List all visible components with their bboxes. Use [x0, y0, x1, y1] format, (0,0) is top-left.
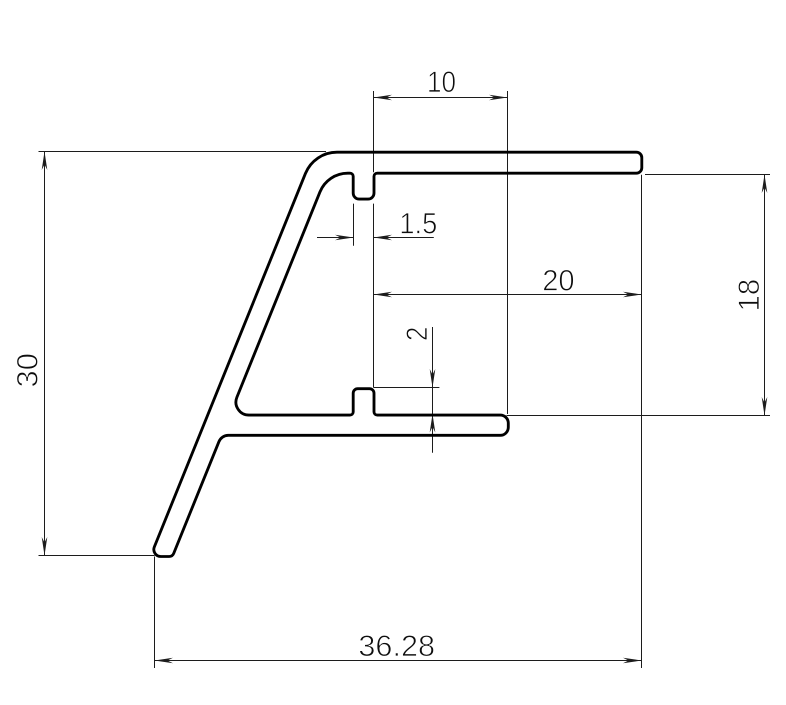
- svg-text:18: 18: [733, 279, 766, 312]
- svg-text:30: 30: [11, 353, 44, 387]
- svg-text:1.5: 1.5: [399, 207, 437, 240]
- svg-text:20: 20: [542, 264, 574, 297]
- svg-text:2: 2: [400, 327, 433, 341]
- svg-text:10: 10: [427, 65, 456, 98]
- svg-text:36.28: 36.28: [358, 630, 435, 663]
